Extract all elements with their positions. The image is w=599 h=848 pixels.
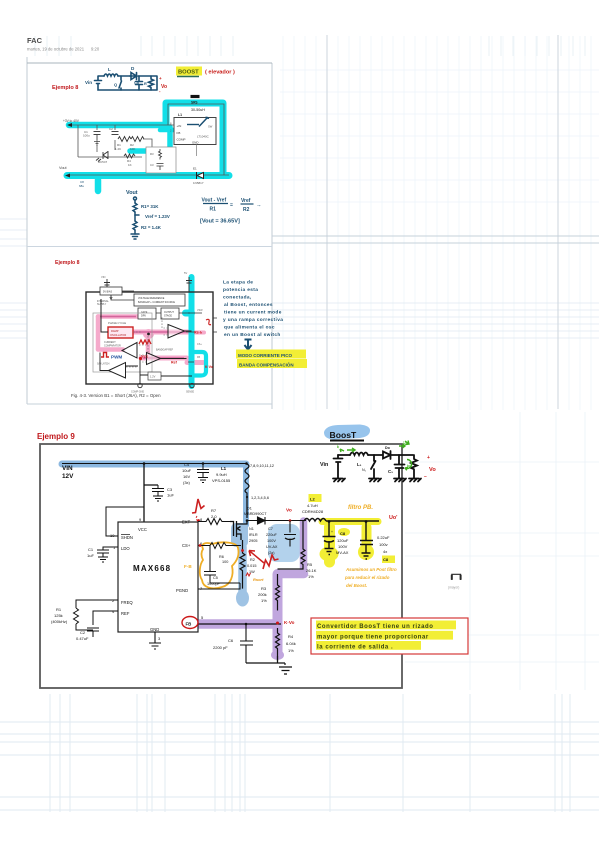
node junction dot: [147, 333, 150, 336]
bias supply box: [97, 287, 122, 306]
red waveform EXT: [192, 499, 205, 513]
svg-text:1.2K: 1.2K: [115, 147, 121, 151]
wire bottom rail highlight: [67, 172, 229, 179]
svg-text:1K: 1K: [128, 163, 132, 167]
svg-text:R5: R5: [307, 562, 313, 567]
node dots: [143, 462, 368, 625]
svg-text:(2x): (2x): [268, 551, 275, 555]
yellow tag C8b: [382, 556, 395, 564]
svg-text:Rsort: Rsort: [253, 577, 264, 582]
svg-text:Do: Do: [385, 446, 391, 450]
transistor Q1 opto: [96, 151, 108, 162]
highlighter layer: [62, 464, 395, 660]
wire out: [326, 520, 379, 522]
svg-text:R3: R3: [261, 586, 267, 591]
resistor R4: [124, 154, 135, 158]
inductor L1 label: [178, 97, 205, 118]
svg-text:mayor porque tiene proporciona: mayor porque tiene proporcionar: [317, 635, 429, 641]
wire bottom: [78, 140, 142, 157]
svg-text:+IN: +IN: [177, 124, 182, 128]
svg-text:la corriente de salida .: la corriente de salida .: [317, 645, 393, 651]
svg-text:100u: 100u: [83, 134, 90, 138]
transistor N1: [230, 521, 247, 541]
small clip icon: [452, 574, 461, 580]
ground GND pin: [149, 632, 161, 649]
svg-text:UV-AX: UV-AX: [266, 545, 278, 549]
resistor R1: [74, 600, 119, 630]
svg-text:−: −: [424, 474, 427, 480]
svg-text:Vo: Vo: [286, 508, 292, 514]
svg-text:(400kHz): (400kHz): [51, 619, 68, 624]
wire box links: [111, 291, 190, 313]
comparator U3: [168, 325, 185, 339]
svg-text:200k: 200k: [258, 592, 267, 597]
voltage reference box: [134, 294, 185, 306]
capacitor C6: [240, 624, 253, 663]
resistor R1 31K: [133, 203, 137, 212]
capacitor C2: [112, 132, 119, 135]
svg-text:iₗ: iₗ: [337, 444, 339, 449]
svg-text:tiene un current mode: tiene un current mode: [224, 310, 282, 316]
svg-text:L: L: [108, 67, 111, 72]
svg-text:CDRH4D28: CDRH4D28: [302, 509, 324, 514]
wire R2 to IC: [143, 139, 152, 148]
grounds: [333, 479, 345, 482]
compensation box: [146, 147, 176, 173]
svg-text:Fig. 4-3. Version B1 = Short: Fig. 4-3. Version B1 = Short (J6A), R2 =…: [71, 393, 161, 398]
inductor L1: [104, 74, 118, 76]
svg-text:L2: L2: [310, 497, 315, 502]
svg-text:Vout: Vout: [126, 190, 138, 196]
node Vo: [159, 76, 167, 94]
svg-text:martes, 19 de octubre de 2021: martes, 19 de octubre de 2021 9:20: [27, 47, 100, 52]
orange handwriting: [344, 567, 397, 588]
svg-text:R7: R7: [211, 508, 217, 513]
pink highlighter strokes: [98, 317, 204, 363]
svg-text:PHASE CYCLE: PHASE CYCLE: [108, 321, 126, 325]
svg-text:Vc1: Vc1: [141, 354, 149, 359]
wire bottom + ground: [246, 656, 292, 674]
label BoosT: [324, 425, 370, 441]
red note box: [311, 618, 468, 654]
inductor L2: [304, 519, 326, 522]
transistor highlight blob: [231, 523, 248, 547]
svg-text:100V: 100V: [338, 544, 348, 549]
svg-text:26.1K: 26.1K: [306, 568, 317, 573]
wire FB line: [198, 623, 281, 625]
svg-text:DRV: DRV: [141, 315, 146, 318]
svg-text:Ejemplo 8: Ejemplo 8: [52, 85, 78, 91]
svg-text:C2: C2: [109, 127, 113, 131]
pin stubs right: [186, 313, 217, 362]
svg-text:FREQ: FREQ: [121, 600, 133, 605]
wire top: [338, 454, 413, 456]
hand sketch boost converter (blue ink): [95, 73, 158, 91]
svg-text:L1: L1: [221, 466, 227, 471]
svg-text:GND: GND: [150, 627, 159, 632]
schematic frame: [40, 444, 402, 688]
resistor R5: [278, 521, 306, 569]
svg-text:10K: 10K: [130, 147, 135, 151]
svg-text:10uF: 10uF: [182, 468, 192, 473]
svg-text:6.04k: 6.04k: [286, 641, 296, 646]
svg-text:GND: GND: [192, 141, 198, 145]
svg-text:BOOST: BOOST: [178, 70, 199, 76]
wire: [134, 200, 136, 203]
svg-text:potencia esta: potencia esta: [223, 287, 258, 293]
node Vref tap: [135, 214, 139, 216]
comparator U5: [109, 363, 126, 379]
svg-text:SW: SW: [208, 125, 213, 129]
svg-text:Vin: Vin: [85, 80, 92, 85]
comparator U2: [122, 343, 137, 359]
svg-text:BC547: BC547: [98, 160, 108, 164]
svg-text:R4: R4: [288, 634, 294, 639]
svg-text:LDO: LDO: [121, 546, 130, 551]
wire top rail: [70, 125, 174, 157]
svg-text:que alimenta el osc: que alimenta el osc: [224, 325, 275, 331]
svg-text:30-50uH: 30-50uH: [191, 108, 205, 112]
svg-text:io: io: [403, 441, 407, 446]
svg-text:OSCILLATOR: OSCILLATOR: [110, 333, 126, 337]
wire into osc: [101, 299, 108, 332]
switch Q: [119, 76, 122, 90]
svg-text:MODO CORRIENTE PICO: MODO CORRIENTE PICO: [238, 353, 293, 358]
svg-text:del Boost.: del Boost.: [346, 583, 367, 588]
yellow filter highlight: [322, 518, 378, 525]
svg-text:COMPARATOR: COMPARATOR: [104, 345, 121, 348]
wire VCC drop: [144, 464, 158, 523]
label (elevador): [205, 70, 235, 76]
svg-text:EXT: EXT: [182, 520, 191, 525]
resistor load: [411, 455, 417, 478]
svg-text:BANDA COMPENSACIÓN: BANDA COMPENSACIÓN: [239, 361, 294, 368]
svg-text:Ejemplo 9: Ejemplo 9: [37, 432, 75, 441]
svg-text:VCC: VCC: [138, 527, 147, 532]
svg-text:D1: D1: [247, 507, 252, 511]
capacitor C9: [360, 521, 373, 559]
svg-text:SHDN: SHDN: [121, 535, 133, 540]
capacitor C7 highlight blob: [268, 524, 300, 562]
wire VIN rail: [62, 463, 247, 465]
svg-text:VIN: VIN: [62, 465, 73, 472]
svg-text:FB: FB: [197, 356, 200, 359]
wire right loop: [67, 104, 229, 175]
pin GND bottom: [138, 383, 142, 387]
svg-text:5V: 5V: [184, 271, 187, 275]
svg-text:C6: C6: [228, 638, 234, 643]
panel borders: [27, 35, 599, 409]
svg-text:100V: 100V: [267, 539, 276, 543]
inductor: [350, 453, 368, 456]
ground: [131, 234, 139, 239]
svg-text:K·Vo: K·Vo: [205, 365, 213, 369]
svg-text:D: D: [131, 66, 135, 71]
svg-text:CS+: CS+: [182, 543, 191, 548]
svg-text:SENSE: SENSE: [186, 391, 195, 394]
svg-text:1.2V: 1.2V: [150, 375, 156, 379]
svg-text:SRS: SRS: [191, 101, 198, 105]
svg-text:C8: C8: [383, 557, 389, 562]
inductor L1: [245, 464, 249, 497]
svg-text:en un Boost al switch: en un Boost al switch: [224, 332, 281, 338]
svg-text:1,2,3,4,5,6: 1,2,3,4,5,6: [251, 496, 269, 500]
svg-text:12V: 12V: [62, 473, 74, 480]
battery Vin: [334, 455, 343, 478]
wire top/bottom rectangle: [98, 76, 157, 90]
green annotations: [340, 441, 412, 471]
svg-text:Vo: Vo: [429, 467, 436, 473]
pin numbers: [110, 517, 204, 641]
svg-text:4.7uH: 4.7uH: [307, 503, 318, 508]
capacitor Co: [136, 76, 143, 90]
wire SHDN loop: [106, 507, 144, 536]
svg-text:BANDGAP REF: BANDGAP REF: [156, 349, 174, 352]
svg-text:Ejemplo 8: Ejemplo 8: [55, 260, 80, 266]
svg-text:R: R: [144, 82, 147, 86]
svg-text:Vo: Vo: [161, 84, 167, 90]
svg-text:FB: FB: [177, 131, 181, 135]
svg-text:1uF: 1uF: [87, 553, 94, 558]
svg-text:K·Vo: K·Vo: [284, 620, 295, 625]
ramp oscillator box: [108, 327, 133, 338]
svg-text:BANDGAP + CURRENT SOURCE: BANDGAP + CURRENT SOURCE: [138, 301, 175, 304]
resistor red mark: [139, 340, 151, 344]
pin VC top: [184, 271, 192, 292]
label Ejemplo 9: [37, 432, 75, 441]
svg-text:0.22uF: 0.22uF: [377, 535, 390, 540]
svg-text:2200 pF: 2200 pF: [213, 645, 228, 650]
svg-text:C7: C7: [268, 527, 273, 531]
svg-text:para reducir el rizado: para reducir el rizado: [344, 575, 390, 580]
svg-text:1uF: 1uF: [167, 493, 174, 498]
driver box: [138, 308, 156, 319]
capacitor Co: [395, 455, 405, 478]
svg-text:=: =: [230, 203, 233, 209]
svg-text:RAMP: RAMP: [111, 329, 119, 333]
label Ejemplo 8b: [55, 260, 80, 266]
svg-text:FB: FB: [186, 622, 192, 627]
resistor R6: [198, 543, 241, 549]
svg-text:FAC: FAC: [27, 36, 43, 45]
svg-text:Uo': Uo': [389, 515, 397, 521]
svg-text:[Vout = 36.65V]: [Vout = 36.65V]: [200, 219, 240, 225]
node Vout: [126, 190, 138, 196]
svg-text:F·B: F·B: [184, 564, 192, 569]
svg-text:1N5817: 1N5817: [193, 181, 204, 185]
svg-text:R6: R6: [219, 555, 224, 559]
svg-text:Vout - Vref: Vout - Vref: [202, 198, 227, 204]
svg-text:C4: C4: [184, 462, 190, 467]
wire loop highlight: [166, 103, 223, 172]
svg-text:C2: C2: [80, 630, 86, 635]
svg-text:C₁: C₁: [388, 469, 393, 474]
svg-text:+: +: [331, 530, 333, 534]
svg-text:PGND: PGND: [176, 588, 188, 593]
svg-text:La etapa de: La etapa de: [223, 280, 253, 286]
node below rail: [95, 180, 102, 191]
svg-text:0.015: 0.015: [247, 564, 257, 568]
pin SW bottom: [190, 383, 194, 387]
purple highlight path: [300, 521, 308, 573]
highlighter strokes: [67, 103, 229, 191]
svg-text:COMP: COMP: [177, 138, 186, 142]
svg-text:al Boost, entonces: al Boost, entonces: [224, 302, 273, 308]
wire drain highlight: [243, 464, 249, 525]
svg-text:PWM: PWM: [111, 355, 122, 360]
battery Vin: [95, 80, 102, 84]
svg-text:+3V to 40V: +3V to 40V: [63, 119, 80, 123]
svg-text:120uF: 120uF: [337, 538, 349, 543]
svg-text:E1: E1: [193, 167, 197, 171]
svg-text:R1: R1: [210, 207, 217, 213]
capacitor C5: [204, 546, 240, 584]
inner panel: [93, 313, 152, 372]
svg-text:1000pF: 1000pF: [207, 582, 221, 586]
svg-text:100: 100: [222, 560, 228, 564]
wire drain node: [246, 497, 248, 518]
svg-text:0.47uF: 0.47uF: [76, 636, 89, 641]
capacitor C4: [197, 464, 209, 483]
svg-text:Convertidor BoosT tiene un riz: Convertidor BoosT tiene un rizado: [317, 624, 434, 630]
svg-text:9.9uH: 9.9uH: [216, 472, 227, 477]
svg-text:MV-AX: MV-AX: [336, 550, 349, 555]
svg-text:Vref = 1.23V: Vref = 1.23V: [145, 214, 170, 219]
svg-text:Q: Q: [114, 82, 117, 87]
svg-text:REF: REF: [121, 611, 130, 616]
svg-text:CS+: CS+: [197, 343, 202, 346]
orange loop around R6 C5: [200, 542, 239, 588]
bottom wires: [100, 331, 192, 384]
svg-text:S/D LATCH: S/D LATCH: [97, 363, 110, 366]
svg-text:1%: 1%: [308, 574, 314, 579]
svg-text:+: +: [427, 455, 430, 461]
svg-text:2905: 2905: [249, 539, 257, 543]
svg-text:100v: 100v: [379, 542, 388, 547]
svg-text:C1: C1: [88, 547, 94, 552]
svg-text:C5: C5: [213, 576, 218, 580]
svg-text:4x: 4x: [383, 549, 387, 554]
svg-text:Vref: Vref: [241, 198, 251, 204]
svg-text:R1: R1: [56, 607, 62, 612]
wire PGND: [198, 583, 240, 589]
svg-text:VPS-0155: VPS-0155: [212, 478, 231, 483]
svg-text:Co: Co: [134, 81, 140, 85]
svg-text:→: →: [256, 203, 262, 209]
svg-text:R2: R2: [250, 558, 255, 562]
resistor R load: [149, 76, 154, 90]
svg-text:MBRD990CT: MBRD990CT: [244, 512, 267, 516]
svg-text:R3: R3: [150, 152, 154, 156]
svg-text:(3x): (3x): [183, 480, 191, 485]
resistor R2 highlight: [238, 547, 247, 596]
svg-text:LT1040C: LT1040C: [197, 135, 209, 139]
diode D1: [197, 172, 204, 179]
arrows on rails: [65, 123, 72, 178]
resistor R4: [276, 628, 280, 663]
outer box: [86, 292, 213, 384]
switch: [371, 455, 376, 478]
svg-text:125k: 125k: [54, 613, 63, 618]
ground: [94, 142, 100, 146]
svg-text:L₁: L₁: [357, 462, 362, 467]
red squiggle: [206, 319, 211, 324]
resistor R2 sense: [240, 540, 245, 589]
highlighted note yellow: [236, 350, 307, 369]
FB red circle: [182, 617, 198, 629]
red arrows: [249, 551, 264, 564]
svg-text:+: +: [159, 76, 162, 81]
svg-text:16V: 16V: [183, 474, 190, 479]
label Rsort orange: [246, 573, 251, 576]
svg-text:Vout: Vout: [59, 166, 68, 170]
svg-text:(mayor): (mayor): [448, 586, 459, 590]
wire top rail highlight: [69, 122, 166, 129]
svg-text:1%: 1%: [288, 648, 294, 653]
wire dashed links: [126, 317, 168, 367]
svg-text:VSW: VSW: [197, 309, 203, 312]
label Ejemplo 8: [52, 85, 78, 91]
yellow tag L2: [309, 494, 322, 502]
resistor R2 1.4K: [133, 221, 137, 230]
box 1.2V: [148, 372, 161, 380]
svg-text:C8: C8: [340, 531, 346, 536]
svg-text:1%: 1%: [261, 598, 267, 603]
resistor R1: [118, 137, 131, 142]
hand circuit: [333, 451, 421, 482]
pwm waveform red: [101, 353, 109, 358]
capacitor C3: [152, 485, 164, 501]
pin VIN top: [101, 275, 110, 292]
svg-text:Rs·Iₛ: Rs·Iₛ: [194, 331, 203, 335]
resistor R2: [131, 137, 144, 142]
svg-text:IRLR: IRLR: [249, 533, 258, 537]
svg-text:filtro PB.: filtro PB.: [348, 505, 373, 511]
svg-text:VOLTAGE REFERENCE: VOLTAGE REFERENCE: [138, 297, 165, 300]
svg-text:68u: 68u: [79, 184, 84, 188]
formula: [200, 198, 262, 225]
arrow down: [245, 340, 252, 350]
svg-text:y una rampa correctiva: y una rampa correctiva: [223, 317, 283, 323]
svg-text:C3: C3: [167, 487, 173, 492]
BOOST tag: [176, 67, 202, 77]
svg-text:SUPPLY: SUPPLY: [97, 303, 107, 306]
wire VIN rail highlight: [62, 461, 246, 468]
capacitor C2: [87, 611, 118, 637]
svg-text:L1: L1: [178, 113, 182, 117]
header title: [27, 36, 100, 52]
comparator U4: [147, 353, 161, 365]
svg-text:5V BIAS: 5V BIAS: [103, 291, 112, 294]
svg-text:Asumimos un Post filtro: Asumimos un Post filtro: [345, 567, 397, 572]
svg-text:MAX668: MAX668: [133, 564, 171, 573]
wire comp highlight: [130, 127, 170, 173]
svg-text:220uF: 220uF: [266, 533, 277, 537]
svg-text:R2 = 1.4K: R2 = 1.4K: [141, 225, 162, 230]
svg-text:conectada,: conectada,: [223, 295, 252, 301]
IC U1 regulator: [170, 117, 216, 170]
svg-text:STAGE: STAGE: [164, 315, 172, 318]
svg-text:Vin: Vin: [320, 462, 328, 468]
capacitor C8: [323, 521, 336, 555]
IC MAX668: [118, 522, 198, 632]
svg-text:VIN: VIN: [101, 275, 105, 279]
svg-text:R1= 31K: R1= 31K: [141, 204, 159, 209]
capacitor C1: [94, 132, 101, 141]
svg-text:Ref: Ref: [171, 361, 178, 365]
magenta core lines: [100, 317, 186, 359]
svg-text:C3: C3: [150, 163, 154, 167]
